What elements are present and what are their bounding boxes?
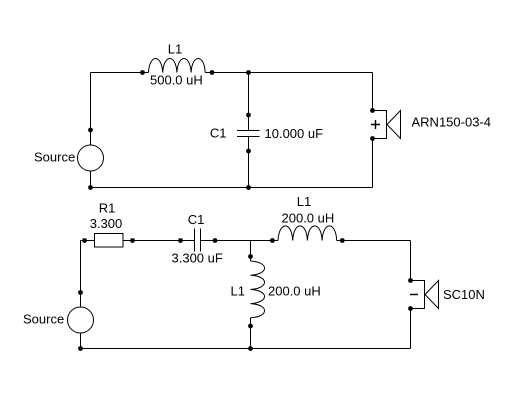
svg-text:3.300 uF: 3.300 uF [172,251,223,266]
node dot source bottom pin (top circuit) [88,185,93,190]
svg-text:L1: L1 [297,194,311,209]
wire left rail (top circuit) [90,73,92,188]
svg-text:10.000 uF: 10.000 uF [265,126,324,141]
speaker SC10N cone triangle [425,281,439,309]
node dot source bottom pin (bottom circuit) [78,346,83,351]
minus polarity mark [410,294,418,296]
resistor R1 body [95,234,124,248]
speaker SC10N bracket [411,281,425,309]
wire left rail (bottom circuit) [80,241,82,349]
node dot speaker top pin (SC10N) [408,278,413,283]
speaker ARN150-03-4 bracket [373,111,387,139]
wire speaker drop (top circuit) [372,73,374,111]
wire shunt inductor branch upper [250,241,252,262]
svg-text:Source: Source [34,150,75,165]
node dot series inductor left pin (bottom) [270,238,275,243]
node dot speaker minus pin [370,136,375,141]
node dot tee junction top rail [246,70,251,75]
svg-text:ARN150-03-4: ARN150-03-4 [412,115,492,130]
wire capacitor branch lower (top circuit) [248,137,250,188]
node dot capacitor top pin (top circuit) [246,113,251,118]
svg-text:C1: C1 [188,212,205,227]
source V1 circle (top circuit) [78,145,104,171]
svg-text:SC10N: SC10N [443,287,485,302]
inductor L1 coil (top circuit, 500 uH) [149,58,206,72]
svg-text:500.0 uH: 500.0 uH [150,73,203,88]
node dot source top pin (bottom circuit) [78,290,83,295]
node dot speaker plus pin [370,108,375,113]
wire bottom rail (bottom circuit) [81,348,411,350]
inductor L1 coil horizontal (bottom circuit, 200 uH) [278,226,337,241]
node dot L1 right pin (top) [210,70,215,75]
node dot source top pin (top circuit) [88,128,93,133]
wire capacitor to inductor (bottom circuit) [201,240,279,242]
source V2 circle (bottom circuit) [68,307,94,333]
svg-text:3.300: 3.300 [90,216,123,231]
node dot capacitor right pin (bottom) [213,238,218,243]
svg-text:200.0 uH: 200.0 uH [282,211,335,226]
svg-text:L1: L1 [231,284,245,299]
wire top rail right segment (top circuit) [205,72,372,74]
node dot tee junction bottom rail (top circuit) [246,185,251,190]
svg-text:Source: Source [23,312,64,327]
node dot series inductor right pin (bottom) [340,238,345,243]
wire shunt inductor branch lower [250,318,252,349]
speaker ARN150-03-4 cone triangle [387,111,401,139]
node dot tee junction bottom rail (bottom circuit) [248,346,253,351]
node dot capacitor bottom pin (top circuit) [246,149,251,154]
capacitor C1 plates (top circuit) [237,131,260,137]
node dot shunt inductor bottom pin [248,324,253,329]
wire top rail corner to resistor (bottom circuit) [81,240,95,242]
wire speaker return (top circuit) [372,139,374,188]
capacitor C1 plates (bottom circuit) [195,229,201,252]
node dot shunt inductor top pin [248,254,253,259]
svg-text:C1: C1 [210,126,227,141]
wire top rail left segment (top circuit) [91,72,149,74]
wire capacitor branch upper (top circuit) [248,73,250,131]
wire bottom rail (top circuit) [91,187,373,189]
node dot resistor right pin [130,238,135,243]
node dot capacitor left pin (bottom) [178,238,183,243]
svg-text:200.0 uH: 200.0 uH [268,284,321,299]
svg-text:L1: L1 [168,42,182,57]
plus polarity mark [371,120,380,129]
node dot speaker bottom pin (SC10N) [408,306,413,311]
wire resistor to capacitor (bottom circuit) [123,240,195,242]
node dot L1 left pin (top) [140,70,145,75]
node dot resistor left pin [82,238,87,243]
svg-text:R1: R1 [99,201,116,216]
wire speaker return (bottom circuit) [410,309,412,349]
wire inductor to speaker corner (bottom circuit) [337,240,411,242]
inductor L1 coil vertical (shunt, 200 uH) [251,261,265,318]
wire speaker drop (bottom circuit) [410,241,412,281]
